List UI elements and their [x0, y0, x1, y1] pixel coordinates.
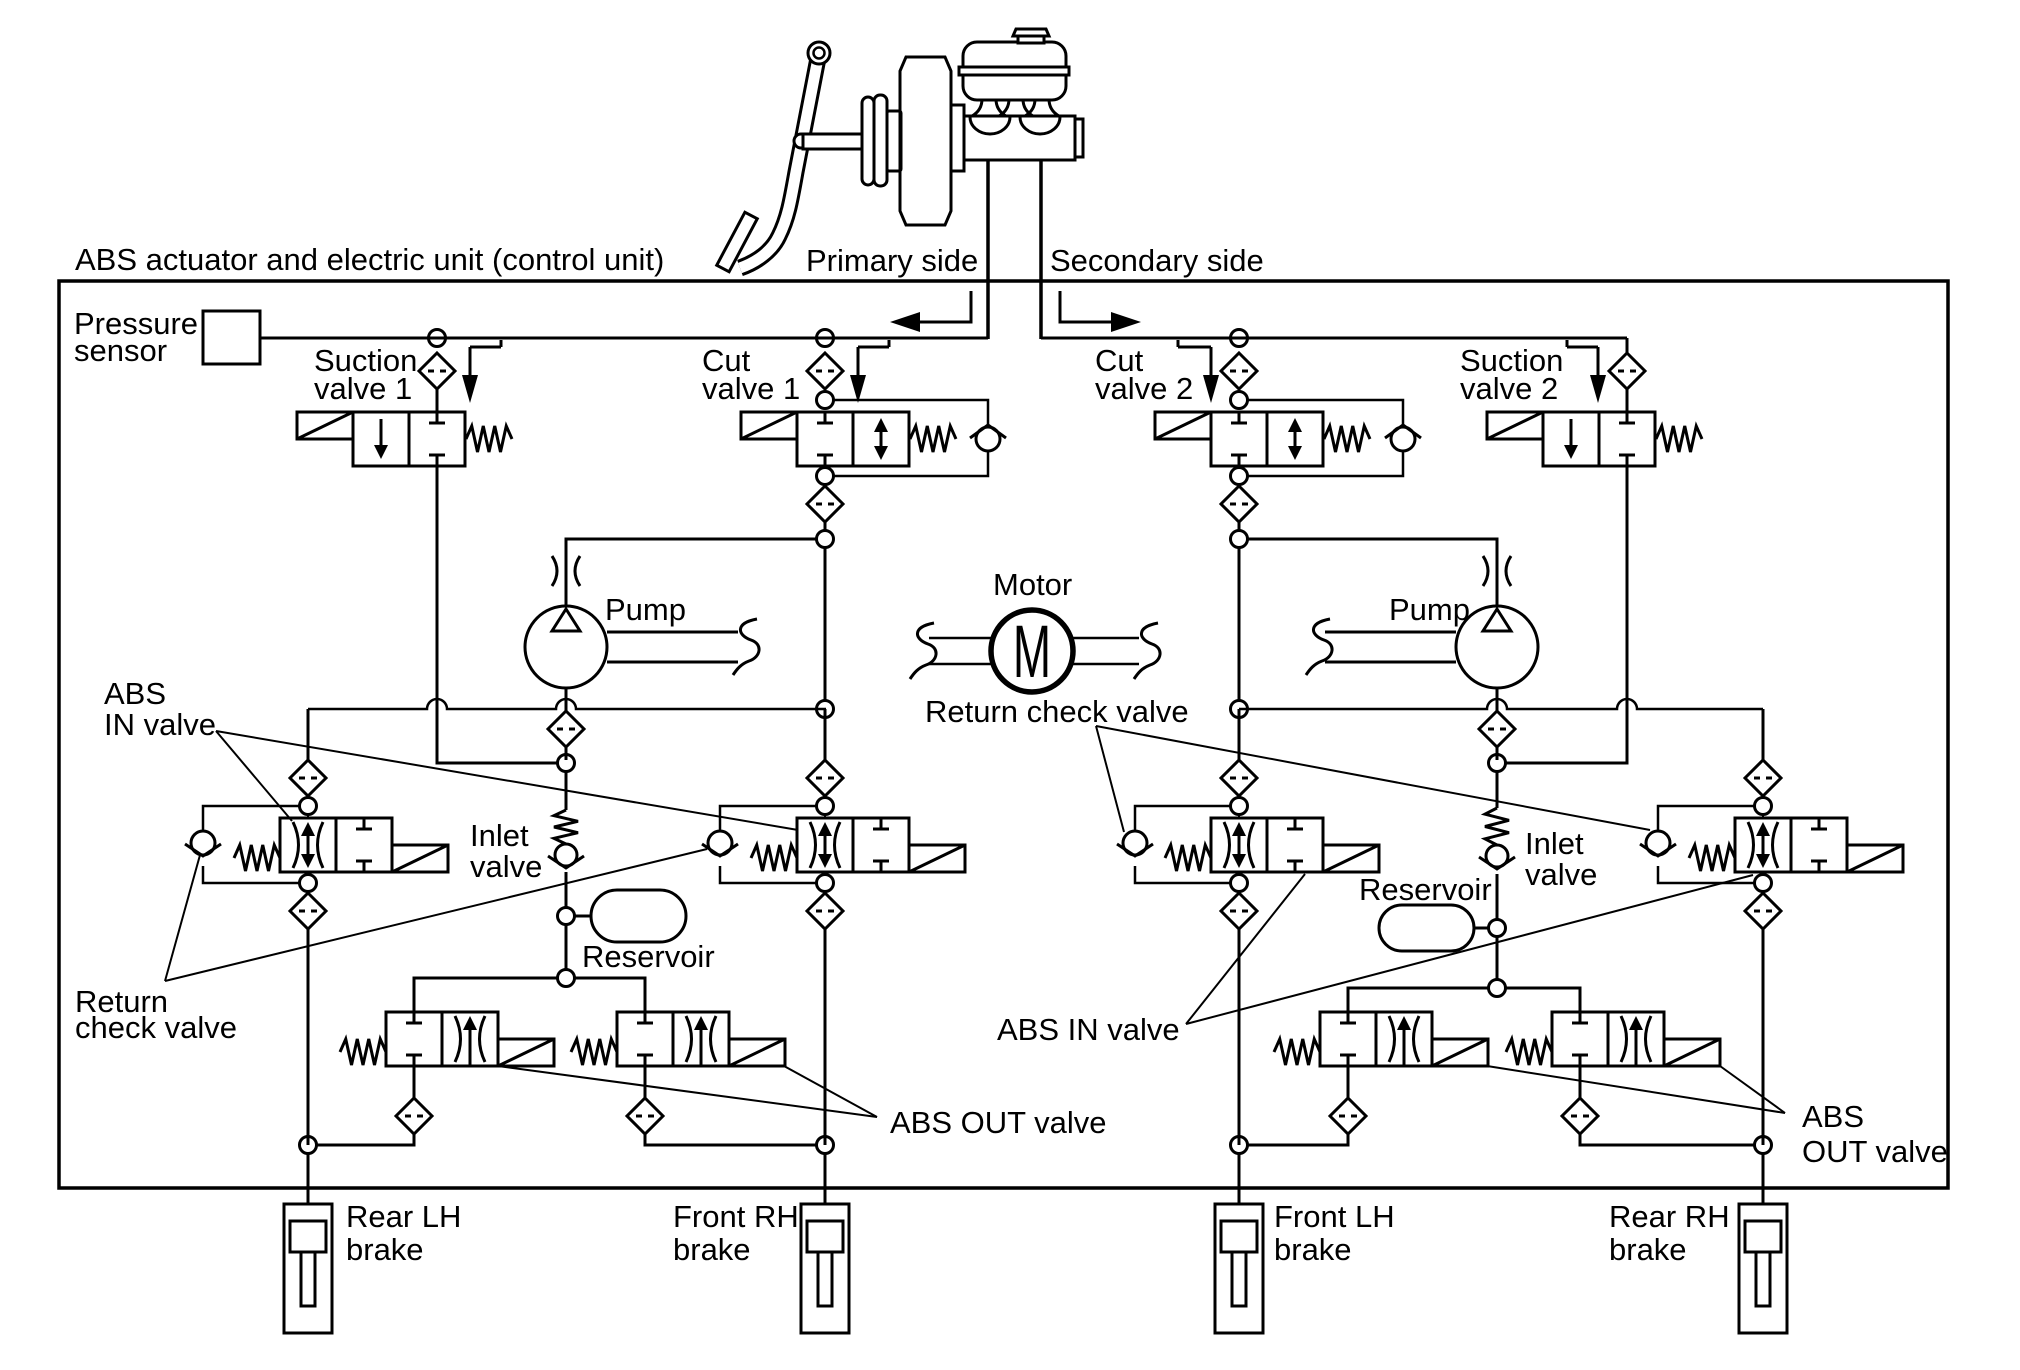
svg-text:Inlet: Inlet: [470, 818, 529, 853]
wire brake line x=825: [824, 1153, 827, 1204]
control unit border: [59, 281, 1948, 1188]
filter cut valve 2 inlet: [1221, 353, 1257, 389]
motor M1: [991, 610, 1073, 694]
svg-text:Reservoir: Reservoir: [1359, 872, 1492, 907]
brake pedal pad: [717, 212, 758, 272]
ABS IN valve 3: [1165, 818, 1379, 872]
ABS IN valve 1: [234, 818, 448, 872]
pressure sensor: [203, 311, 260, 364]
pedal clevis pin: [794, 134, 808, 148]
wheel brake Rear RH: [1739, 1204, 1787, 1333]
wire reservoir node down: [565, 924, 568, 970]
wire primary riser: [986, 160, 990, 339]
wire return rail to ABS IN valve 1: [307, 709, 310, 760]
callout ABS IN valve right: [1186, 874, 1753, 1024]
ABS IN valve 2: [751, 818, 965, 872]
cut valve 1 energize arrow: [850, 340, 889, 403]
filter suction valve 1 inlet: [419, 353, 455, 389]
return check valve 3: [1117, 831, 1153, 856]
svg-text:valve 1: valve 1: [314, 371, 412, 406]
wheel brake Rear LH: [284, 1204, 332, 1333]
arrow secondary flow: [1060, 291, 1141, 332]
svg-text:brake: brake: [1274, 1232, 1352, 1267]
label Inlet valve (right): [1525, 826, 1597, 892]
node ABS IN valve 2 top: [817, 798, 834, 815]
wire ABS IN valve 2 outlet: [824, 872, 826, 893]
label Cut valve 1: [702, 343, 800, 406]
filter cut valve 1 outlet: [807, 486, 843, 522]
filter ABS OUT valve 3 outlet: [1330, 1098, 1366, 1134]
reservoir R2: [1379, 905, 1489, 951]
wire pump 2 outlet down: [1496, 688, 1499, 760]
check valve cut valve 2 bypass: [1385, 425, 1421, 451]
return rail left: [308, 699, 826, 709]
label Pressure sensor: [74, 306, 198, 368]
node primary rail / suction valve 1: [429, 330, 446, 347]
wire brake line x=1239: [1238, 1153, 1241, 1204]
wire node to inlet valve 1: [565, 771, 568, 810]
label Secondary side: [1050, 243, 1264, 278]
node cut valve 2 / pump 2 feed: [1231, 531, 1248, 548]
label Pump 1: [605, 592, 686, 627]
label Suction valve 1: [314, 343, 417, 406]
callout ABS OUT valve right: [1487, 1066, 1785, 1113]
svg-text:ABS: ABS: [104, 676, 166, 711]
master cylinder chamber dome 1: [970, 117, 1010, 134]
filter cut valve 1 inlet: [807, 353, 843, 389]
inlet valve 1 spring: [554, 810, 578, 844]
svg-text:ABS IN valve: ABS IN valve: [997, 1012, 1180, 1047]
node cut valve 1 outlet: [817, 468, 834, 485]
flex coupling pump 2 inlet: [1483, 556, 1511, 586]
ABS IN valve 4: [1689, 818, 1903, 872]
wire ABS OUT pair 1-2 top loop: [414, 978, 645, 1012]
suction valve 1: [297, 412, 512, 466]
wire ABS OUT valve 3 outlet: [1347, 1066, 1350, 1100]
svg-text:Front RH: Front RH: [673, 1199, 799, 1234]
svg-text:brake: brake: [346, 1232, 424, 1267]
cut valve 1: [741, 412, 956, 466]
svg-text:valve 2: valve 2: [1460, 371, 1558, 406]
wire ABS IN valve 2 top: [824, 795, 826, 818]
label Return check valve (left): [75, 984, 237, 1045]
inlet valve 2 ball: [1479, 845, 1515, 869]
svg-text:IN valve: IN valve: [104, 707, 216, 742]
label ABS IN valve (right): [997, 1012, 1180, 1047]
node reservoir 1: [558, 908, 575, 925]
wire ABS OUT valve 4 to brake rail: [1580, 1134, 1754, 1145]
node cut valve 2 outlet: [1231, 468, 1248, 485]
filter ABS IN valve 1 inlet: [290, 760, 326, 796]
booster front plate 1: [862, 97, 874, 185]
label ABS actuator and electric unit (control unit): [75, 242, 664, 277]
ABS OUT valve 3: [1274, 1012, 1488, 1066]
node brake rail Rear RH: [1755, 1137, 1772, 1154]
svg-text:OUT valve: OUT valve: [1802, 1134, 1948, 1169]
node ABS OUT pair 1-2 top: [558, 970, 575, 987]
wire secondary rail corner to suction valve 2: [1626, 338, 1629, 353]
wire cut valve 1 outlet: [824, 466, 827, 530]
wire ABS IN valve 2 bypass: [720, 806, 817, 883]
label Return check valve (secondary): [925, 694, 1189, 729]
label Primary side: [806, 243, 978, 278]
filter ABS IN valve 4 outlet: [1745, 893, 1781, 929]
node return rail / cut valve 1 column: [817, 701, 834, 718]
callout return check valve secondary: [1096, 726, 1650, 832]
node return rail / cut valve 2 column: [1231, 701, 1248, 718]
node brake rail Rear LH: [300, 1137, 317, 1154]
check valve cut valve 1 bypass: [970, 425, 1006, 451]
cut valve 2 energize arrow: [1178, 340, 1219, 403]
svg-text:Secondary side: Secondary side: [1050, 243, 1264, 278]
motor shaft right: [1073, 623, 1160, 679]
wire ABS IN valve 4 bypass: [1658, 806, 1755, 883]
node brake rail Front LH: [1231, 1137, 1248, 1154]
label Rear LH brake: [346, 1199, 461, 1267]
node primary rail / cut valve 1: [817, 330, 834, 347]
wire ABS IN valve 1 to brake rail: [307, 929, 310, 1145]
wire return rail to ABS IN valve 3: [1238, 709, 1241, 760]
filter ABS OUT valve 4 outlet: [1562, 1098, 1598, 1134]
wire ABS IN valve 2 to brake rail: [824, 929, 827, 1145]
node pump 1 suction: [558, 755, 575, 772]
wire return rail to ABS IN valve 4: [1762, 709, 1765, 760]
wire inlet valve 2 to reservoir node: [1496, 874, 1499, 919]
pump P2: [1306, 606, 1538, 688]
wire return rail to ABS IN valve 2: [824, 709, 827, 760]
wire cut valve 2 node to pump 2: [1248, 539, 1497, 606]
filter ABS IN valve 4 inlet: [1745, 760, 1781, 796]
node secondary rail / cut valve 2: [1231, 330, 1248, 347]
booster front hub: [887, 111, 901, 171]
wire ABS IN valve 4 to brake rail: [1762, 929, 1765, 1145]
brake pedal arm: [740, 42, 830, 268]
svg-text:Pump: Pump: [605, 592, 686, 627]
svg-text:sensor: sensor: [74, 333, 167, 368]
filter pump 1 suction: [548, 711, 584, 747]
filter ABS OUT valve 1 outlet: [396, 1098, 432, 1134]
wire ABS IN valve 3 bypass: [1135, 806, 1231, 883]
filter pump 2 suction: [1479, 711, 1515, 747]
wire cut valve 1 bypass: [834, 400, 988, 476]
label Front RH brake: [673, 1199, 799, 1267]
wire ABS IN valve 1 bypass: [203, 806, 300, 883]
arrow primary flow: [890, 291, 971, 332]
node cut valve 1 bypass top: [817, 392, 834, 409]
wire ABS OUT valve 1 to brake rail: [317, 1134, 414, 1145]
reservoir filler cap: [1013, 29, 1049, 43]
callout return check valve left: [165, 849, 707, 981]
wire secondary riser: [1039, 160, 1043, 339]
master cylinder chamber dome 2: [1020, 117, 1060, 134]
wire ABS IN valve 4 outlet: [1762, 872, 1764, 893]
wire ABS OUT valve 4 outlet: [1579, 1066, 1582, 1100]
master cylinder mount plate: [951, 105, 964, 171]
svg-text:ABS OUT valve: ABS OUT valve: [890, 1105, 1107, 1140]
svg-text:ABS: ABS: [1802, 1099, 1864, 1134]
wire node to inlet valve 2: [1496, 771, 1499, 808]
motor shaft left: [910, 623, 991, 679]
svg-text:Pump: Pump: [1389, 592, 1470, 627]
wire inlet valve 1 to reservoir node: [565, 872, 568, 908]
filter cut valve 2 outlet: [1221, 486, 1257, 522]
svg-text:valve: valve: [470, 849, 542, 884]
svg-text:brake: brake: [673, 1232, 751, 1267]
ABS OUT valve 1: [340, 1012, 554, 1066]
wire ABS OUT valve 2 outlet: [644, 1066, 647, 1100]
filter ABS IN valve 3 inlet: [1221, 760, 1257, 796]
svg-text:valve 2: valve 2: [1095, 371, 1193, 406]
reservoir R1: [574, 890, 686, 942]
suction valve 1 energize arrow: [462, 340, 501, 403]
svg-text:Rear RH: Rear RH: [1609, 1199, 1730, 1234]
filter ABS IN valve 1 outlet: [290, 893, 326, 929]
wire filter to suction valve 1: [436, 389, 439, 412]
wire ABS IN valve 3 top: [1238, 795, 1240, 818]
wire pump 1 outlet down: [565, 688, 568, 760]
reservoir port bell 1: [972, 99, 1006, 116]
filter suction valve 2 inlet: [1609, 353, 1645, 389]
brake booster body: [900, 57, 951, 225]
wire secondary rail: [1041, 337, 1627, 340]
svg-text:check valve: check valve: [75, 1010, 237, 1045]
filter ABS IN valve 3 outlet: [1221, 893, 1257, 929]
wire reservoir 2 node down: [1496, 936, 1499, 980]
master cylinder body: [964, 116, 1083, 160]
svg-text:Inlet: Inlet: [1525, 826, 1584, 861]
wire brake line x=308: [307, 1153, 310, 1204]
node ABS IN valve 3 bottom: [1231, 875, 1248, 892]
node cut valve 1 / pump 1 feed: [817, 531, 834, 548]
label Reservoir (left): [582, 939, 715, 974]
wire ABS IN valve 3 to brake rail: [1238, 929, 1241, 1145]
booster front plate 2: [874, 95, 887, 186]
wire suction valve 1 to pump node: [437, 466, 558, 763]
booster push rod: [803, 134, 865, 149]
label Inlet valve (left): [470, 818, 542, 884]
wire cut valve 2 down to return rail: [1238, 548, 1241, 700]
return rail right: [1239, 699, 1763, 709]
svg-text:M: M: [1013, 611, 1051, 694]
svg-text:Primary side: Primary side: [806, 243, 978, 278]
svg-text:valve: valve: [1525, 857, 1597, 892]
suction valve 2 energize arrow: [1567, 340, 1606, 403]
ABS OUT valve 2: [571, 1012, 785, 1066]
svg-text:Motor: Motor: [993, 567, 1072, 602]
svg-text:Front LH: Front LH: [1274, 1199, 1395, 1234]
wire ABS OUT valve 1 outlet: [413, 1066, 416, 1100]
label Reservoir (right): [1359, 872, 1492, 907]
wheel brake Front RH: [801, 1204, 849, 1333]
filter ABS IN valve 2 outlet: [807, 893, 843, 929]
filter ABS OUT valve 2 outlet: [627, 1098, 663, 1134]
wire ABS OUT valve 3 to brake rail: [1248, 1134, 1348, 1145]
node ABS IN valve 1 top: [300, 798, 317, 815]
node pump 2 suction: [1489, 755, 1506, 772]
node ABS IN valve 3 top: [1231, 798, 1248, 815]
wire ABS IN valve 1 outlet: [307, 872, 309, 893]
wire filter to suction valve 2: [1626, 389, 1629, 412]
wheel brake Front LH: [1215, 1204, 1263, 1333]
ABS OUT valve 4: [1506, 1012, 1720, 1066]
return check valve 4: [1640, 831, 1676, 856]
label Front LH brake: [1274, 1199, 1395, 1267]
master cylinder reservoir tank: [959, 42, 1069, 100]
node reservoir 2: [1489, 920, 1506, 937]
reservoir port bell 2: [999, 99, 1033, 116]
svg-text:brake: brake: [1609, 1232, 1687, 1267]
wire cut valve 1 down to return rail: [824, 548, 827, 700]
wire primary rail: [260, 337, 988, 340]
svg-text:Rear LH: Rear LH: [346, 1199, 461, 1234]
svg-text:Return check valve: Return check valve: [925, 694, 1189, 729]
filter ABS IN valve 2 inlet: [807, 760, 843, 796]
wire cut valve 2 outlet: [1238, 466, 1241, 530]
return check valve 1: [185, 831, 221, 856]
wire suction valve 2 to pump node: [1506, 466, 1627, 763]
pump P1: [525, 606, 759, 688]
inlet valve 2 spring: [1485, 808, 1509, 845]
suction valve 2: [1487, 412, 1702, 466]
callout ABS IN valve left: [216, 731, 798, 830]
flex coupling pump 1 inlet: [552, 556, 580, 586]
wire ABS IN valve 3 outlet: [1238, 872, 1240, 893]
node ABS IN valve 2 bottom: [817, 875, 834, 892]
label Motor: [993, 567, 1072, 602]
node ABS IN valve 1 bottom: [300, 875, 317, 892]
label ABS IN valve (left): [104, 676, 216, 742]
node brake rail Front RH: [817, 1137, 834, 1154]
node cut valve 2 bypass top: [1231, 392, 1248, 409]
wire cut valve 2 bypass: [1248, 400, 1403, 476]
wire brake line x=1763: [1762, 1153, 1765, 1204]
label Rear RH brake: [1609, 1199, 1730, 1267]
label Pump 2: [1389, 592, 1470, 627]
node ABS IN valve 4 bottom: [1755, 875, 1772, 892]
callout ABS OUT valve left: [498, 1066, 877, 1117]
wire ABS OUT pair 3-4 top loop: [1348, 988, 1580, 1012]
label Suction valve 2: [1460, 343, 1563, 406]
wire ABS OUT valve 2 to brake rail: [645, 1134, 816, 1145]
svg-text:valve 1: valve 1: [702, 371, 800, 406]
wire cut valve 1 node to pump 1: [566, 539, 816, 606]
label ABS OUT valve (left): [890, 1105, 1107, 1140]
wire ABS IN valve 1 top: [307, 795, 309, 818]
node ABS OUT pair 3-4 top: [1489, 980, 1506, 997]
inlet valve 1 ball: [548, 844, 584, 868]
node ABS IN valve 4 top: [1755, 798, 1772, 815]
cut valve 2: [1155, 412, 1370, 466]
wire ABS IN valve 4 top: [1762, 795, 1764, 818]
reservoir port bell 3: [1025, 99, 1059, 116]
label ABS OUT valve (right): [1802, 1099, 1948, 1169]
svg-text:Reservoir: Reservoir: [582, 939, 715, 974]
label Cut valve 2: [1095, 343, 1193, 406]
svg-text:ABS actuator and electric unit: ABS actuator and electric unit (control …: [75, 242, 664, 277]
return check valve 2: [702, 831, 738, 856]
